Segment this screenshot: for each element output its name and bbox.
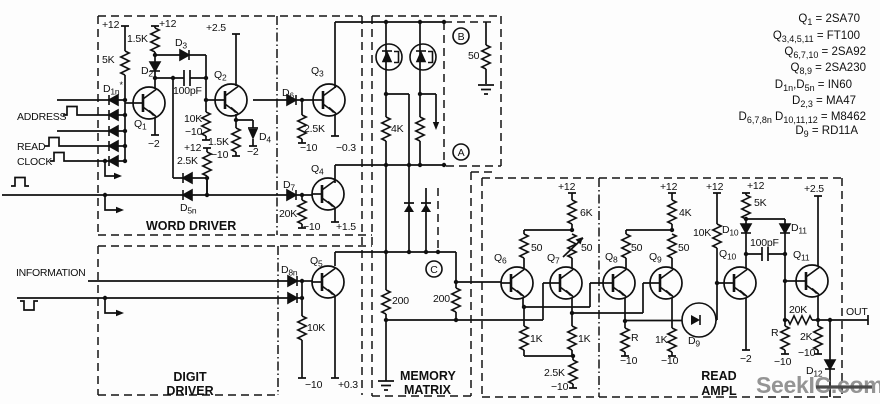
svg-text:READ: READ	[17, 141, 46, 153]
svg-text:B: B	[458, 31, 465, 43]
svg-text:READ: READ	[701, 369, 736, 383]
svg-text:−10: −10	[305, 379, 323, 391]
svg-text:200: 200	[392, 295, 409, 307]
svg-text:20K: 20K	[279, 208, 297, 220]
svg-text:50: 50	[468, 50, 480, 62]
svg-text:1K: 1K	[578, 333, 591, 345]
svg-text:5K: 5K	[102, 54, 115, 66]
svg-text:ADDRESS: ADDRESS	[17, 111, 67, 123]
svg-text:−10: −10	[661, 355, 679, 367]
svg-text:100pF: 100pF	[173, 85, 202, 97]
svg-text:+12: +12	[706, 181, 724, 193]
svg-text:C: C	[430, 264, 438, 276]
svg-text:R: R	[771, 327, 779, 339]
svg-text:4K: 4K	[391, 123, 404, 135]
svg-text:OUT: OUT	[846, 306, 868, 318]
svg-text:+12: +12	[159, 18, 177, 30]
svg-text:+0.3: +0.3	[338, 379, 358, 391]
svg-text:+12: +12	[184, 142, 202, 154]
svg-text:10K: 10K	[307, 322, 325, 334]
svg-text:50: 50	[631, 242, 643, 254]
svg-text:10K: 10K	[184, 113, 202, 125]
svg-text:4K: 4K	[679, 207, 692, 219]
svg-text:100pF: 100pF	[750, 237, 779, 249]
svg-text:WORD DRIVER: WORD DRIVER	[146, 219, 236, 233]
svg-text:50: 50	[581, 242, 593, 254]
svg-text:2.5K: 2.5K	[544, 367, 565, 379]
svg-text:2.5K: 2.5K	[304, 123, 325, 135]
svg-text:SeekIC.com: SeekIC.com	[756, 372, 880, 398]
svg-text:MATRIX: MATRIX	[404, 383, 452, 397]
svg-text:200: 200	[433, 293, 450, 305]
svg-text:+1.5: +1.5	[336, 221, 356, 233]
svg-text:DRIVER: DRIVER	[166, 384, 213, 398]
svg-text:−10: −10	[211, 149, 229, 161]
svg-text:INFORMATION: INFORMATION	[16, 267, 85, 279]
svg-text:50: 50	[531, 242, 543, 254]
svg-text:CLOCK: CLOCK	[17, 156, 52, 168]
svg-text:50: 50	[678, 242, 690, 254]
svg-text:+12: +12	[660, 181, 678, 193]
svg-text:−10: −10	[303, 221, 321, 233]
svg-text:+2.5: +2.5	[206, 22, 226, 34]
svg-text:+2.5: +2.5	[804, 183, 824, 195]
svg-text:+12: +12	[558, 181, 576, 193]
svg-text:−2: −2	[740, 353, 752, 365]
svg-text:1K: 1K	[655, 334, 668, 346]
svg-text:−10: −10	[798, 347, 816, 359]
svg-text:−2: −2	[148, 138, 160, 150]
svg-text:−10: −10	[300, 142, 318, 154]
svg-text:−2: −2	[247, 146, 259, 158]
svg-text:2K: 2K	[800, 331, 813, 343]
svg-text:DIGIT: DIGIT	[173, 370, 207, 384]
svg-text:5K: 5K	[754, 197, 767, 209]
svg-text:−10: −10	[620, 355, 638, 367]
svg-text:+12: +12	[747, 180, 765, 192]
svg-text:−10: −10	[551, 381, 569, 393]
svg-text:20K: 20K	[789, 304, 807, 316]
svg-text:A: A	[458, 147, 465, 159]
svg-text:+12: +12	[102, 19, 120, 31]
svg-text:1K: 1K	[530, 333, 543, 345]
svg-text:R: R	[631, 332, 639, 344]
svg-text:−10: −10	[185, 126, 203, 138]
svg-text:−0.3: −0.3	[336, 142, 356, 154]
svg-text:1.5K: 1.5K	[208, 136, 229, 148]
svg-text:10K: 10K	[693, 227, 711, 239]
svg-text:MEMORY: MEMORY	[400, 369, 456, 383]
svg-text:AMPL: AMPL	[701, 384, 737, 398]
svg-text:2.5K: 2.5K	[177, 155, 198, 167]
svg-text:−10: −10	[774, 356, 792, 368]
svg-text:6K: 6K	[580, 207, 593, 219]
svg-text:1.5K: 1.5K	[127, 33, 148, 45]
